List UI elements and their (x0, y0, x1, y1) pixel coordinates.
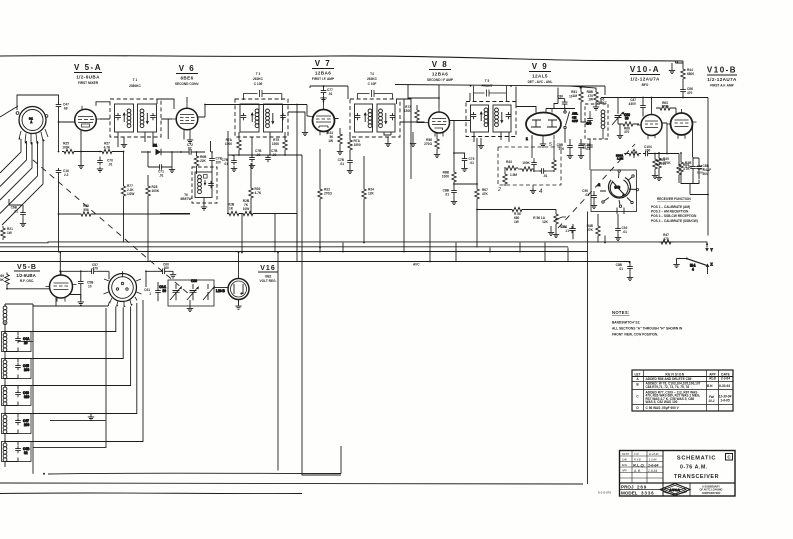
svg-text:1: 1 (526, 137, 528, 141)
node label V10-A (630, 65, 660, 87)
svg-text:AVC: AVC (413, 263, 420, 267)
capacitor C59b below T6 (579, 143, 593, 151)
wire: bus y=247 (0, 246, 568, 248)
ground below C68 (20, 221, 26, 227)
svg-text:SECOND I F AMP: SECOND I F AMP (427, 78, 454, 82)
svg-text:.01: .01 (340, 162, 345, 166)
svg-text:100: 100 (24, 368, 30, 372)
resistor R38 (679, 152, 693, 182)
wire: af coupling line (650, 125, 679, 163)
svg-text:1-6-65: 1-6-65 (720, 399, 729, 403)
capacitor C89 (693, 158, 712, 179)
resistor R35 (657, 152, 672, 175)
svg-text:4: 4 (692, 268, 694, 272)
ground T4 right (410, 132, 416, 147)
svg-text:BFO: BFO (642, 83, 649, 87)
svg-text:262KC: 262KC (367, 77, 378, 81)
wire: V7 top rail tap (310, 85, 348, 104)
svg-text:1.5M: 1.5M (510, 173, 517, 177)
wire: V10 interconnect (643, 115, 667, 126)
node label V10-B (707, 66, 737, 88)
wire: V5-B cathode to ground (69, 295, 81, 300)
svg-text:470: 470 (687, 91, 693, 95)
svg-text:.01: .01 (585, 193, 590, 197)
capacitor C47 (56, 102, 69, 111)
svg-text:C63: C63 (191, 279, 197, 283)
svg-text:1500: 1500 (225, 142, 232, 146)
tube V16 regulator (228, 274, 249, 303)
wire: T5 bottom leads (474, 132, 509, 143)
resistor R44 (681, 63, 695, 87)
wire: top rail hook and ground (672, 61, 683, 68)
node label NOTES (612, 310, 683, 337)
coil L6 + capacitor C44 (2, 330, 34, 360)
svg-text:V 9: V 9 (532, 62, 549, 71)
svg-text:V 6: V 6 (179, 64, 196, 73)
svg-text:2: 2 (497, 187, 501, 193)
transformer T2 osc coil (192, 167, 217, 210)
svg-text:APP: APP (622, 470, 627, 473)
svg-text:6BE6: 6BE6 (180, 76, 193, 81)
svg-text:100K: 100K (522, 161, 530, 165)
wire: T5 to V9 (470, 85, 536, 113)
ground C105 (578, 153, 584, 159)
svg-text:11-18-63: 11-18-63 (649, 453, 659, 456)
wire: second rail drop x=408 (407, 84, 409, 99)
title block text (621, 453, 731, 496)
node label T2 (181, 193, 192, 201)
wire: V9 pin grounds (542, 140, 544, 142)
capacitor C73b (209, 151, 222, 167)
svg-text:820: 820 (24, 395, 30, 399)
svg-text:R.V.B: R.V.B (634, 457, 641, 461)
ground R33 (337, 149, 343, 155)
svg-text:D1: D1 (153, 144, 157, 148)
svg-text:FRONT VIEW, CCW POSITION.: FRONT VIEW, CCW POSITION. (612, 333, 658, 337)
resistor R42 in box (520, 161, 534, 171)
capacitor C57 (80, 263, 109, 274)
svg-text:1: 1 (565, 229, 567, 233)
dashed mechanical link S2 (558, 144, 635, 228)
ground C73 (231, 166, 237, 172)
svg-text:PROJ: PROJ (621, 484, 634, 489)
ground below C70 (97, 167, 103, 173)
wire: R68 line y=214 (58, 213, 190, 252)
svg-text:1W: 1W (328, 139, 333, 143)
tube V10-B (667, 109, 697, 139)
resistor R69 grid (0, 273, 9, 289)
wire: y=210 volume line (476, 209, 556, 248)
resistor R66 (618, 122, 639, 134)
svg-text:1: 1 (149, 292, 151, 296)
logo subsidiary text (700, 486, 723, 495)
node label V7 (312, 59, 335, 81)
trimmer box (168, 280, 228, 306)
svg-text:100: 100 (645, 148, 651, 152)
capacitor C82 in box (539, 168, 548, 178)
wire: box internals (505, 136, 554, 188)
svg-text:12AL5: 12AL5 (532, 74, 548, 79)
svg-text:.01: .01 (272, 153, 277, 157)
svg-text:V 5-A: V 5-A (74, 63, 102, 72)
ground top rail (669, 68, 675, 74)
node label V5-B (14, 264, 40, 283)
node label AVC (413, 263, 420, 267)
resistor R56 cathode (424, 133, 439, 152)
resistor R82 (587, 89, 599, 105)
resistor R73 grid (404, 105, 425, 123)
wire: box around bfo-af (590, 211, 592, 213)
svg-text:.01: .01 (619, 267, 624, 271)
capacitor C80b (443, 188, 457, 199)
node label V16 (258, 265, 278, 283)
wire: V6 plate to T3 (198, 104, 309, 155)
resistor R48 (587, 214, 601, 243)
tube V10-A (637, 111, 666, 140)
svg-text:1.2M: 1.2M (617, 157, 624, 161)
wire: antenna loop to C47 (17, 95, 59, 110)
wire: S1-A fan verticals and diagonals (0, 106, 43, 225)
svg-text:BANDSWITCH’ S1:: BANDSWITCH’ S1: (612, 321, 640, 325)
wire: S-2 surrounding box (591, 170, 637, 212)
node label drawing number (598, 491, 611, 495)
capacitor C104 (643, 145, 652, 156)
capacitor C78 (338, 156, 353, 168)
wire: T3 bottom node (228, 132, 302, 156)
svg-text:V 7: V 7 (315, 59, 332, 68)
resistor R75 (272, 132, 287, 155)
wire: top horizontal rail (0, 56, 683, 61)
node label V9 (528, 62, 553, 84)
wire: BFO top feeds (570, 86, 605, 95)
svg-text:1-6-64: 1-6-64 (648, 469, 657, 473)
svg-text:.01: .01 (543, 174, 548, 178)
svg-text:T4: T4 (370, 72, 374, 76)
svg-text:LET: LET (634, 372, 640, 376)
svg-text:6800: 6800 (687, 72, 694, 76)
tube V5-B (46, 271, 77, 302)
capacitor C60 (146, 263, 173, 275)
svg-text:430V: 430V (629, 102, 637, 106)
resistor R25 (62, 142, 76, 154)
switch M-1 (677, 258, 714, 275)
title block frame (620, 451, 736, 497)
ground C77 (320, 96, 326, 102)
coil L8 + capacitor C46 (2, 384, 32, 414)
svg-text:2-3-64: 2-3-64 (721, 377, 730, 381)
svg-text:R.L.Q.: R.L.Q. (633, 463, 645, 468)
svg-text:82: 82 (24, 451, 28, 455)
svg-text:556: 556 (83, 208, 89, 212)
svg-text:.01: .01 (256, 153, 261, 157)
svg-text:C.W.: C.W. (634, 453, 640, 456)
wire: step vertical x=106 (33, 308, 106, 475)
coil L7 + capacitor C45 (2, 357, 32, 387)
wire: vertical x=278 (277, 252, 279, 471)
svg-text:82: 82 (188, 147, 192, 151)
svg-text:100K: 100K (62, 146, 70, 150)
svg-text:1500: 1500 (272, 142, 279, 146)
volume pot R56A (533, 210, 566, 233)
node label T3 (253, 72, 264, 86)
transformer T5 (466, 86, 516, 137)
ground C92 (615, 235, 621, 241)
capacitor C90 (582, 189, 597, 203)
svg-text:R43: R43 (506, 160, 512, 164)
svg-text:T 5: T 5 (485, 79, 490, 83)
capacitor C46 avc end (616, 262, 633, 276)
ground C90 (591, 203, 597, 209)
revision table grid (632, 370, 733, 411)
wire: bus end arrow Y (705, 243, 713, 252)
svg-text:1W: 1W (7, 231, 12, 235)
svg-text:T 3: T 3 (256, 72, 261, 76)
svg-text:V10-A: V10-A (630, 65, 660, 74)
tube V8 (425, 108, 454, 137)
transformer T1 (110, 99, 161, 137)
transformer T4 (350, 90, 400, 137)
resistor R88 (442, 170, 456, 184)
tube V6 (172, 103, 202, 133)
transformer T3 (235, 90, 288, 137)
capacitor C105 (578, 139, 591, 153)
ground C46 (627, 275, 633, 281)
tube V7 (309, 105, 339, 136)
svg-text:ADDED R86 AND DELETE C89: ADDED R86 AND DELETE C89 (646, 377, 692, 381)
capacitor C94 (561, 224, 576, 239)
resistor R32 rail (318, 149, 333, 252)
ground C78 (347, 168, 353, 174)
wire: R88 to node (453, 183, 478, 188)
wire: R38 C89 bottom joins (681, 180, 709, 195)
trimmer C63 (187, 279, 199, 300)
node label V6 (175, 64, 200, 86)
svg-text:1500: 1500 (404, 109, 411, 113)
resistor R47 on bus (659, 233, 673, 244)
node label T6 BFO (597, 98, 608, 106)
svg-text:SECOND CONV.: SECOND CONV. (175, 82, 200, 86)
wire: T1 to V6 (157, 99, 174, 119)
ground detector box (530, 188, 543, 195)
svg-text:1/2-12AU7A: 1/2-12AU7A (707, 77, 737, 82)
wire: vertical x=228 (227, 152, 229, 214)
wire: x=692 plate rail (692, 122, 695, 157)
svg-text:0-76 A.M.: 0-76 A.M. (680, 465, 708, 471)
wire: bus y=252 (0, 251, 587, 253)
wire: V9 plate riser (554, 87, 581, 109)
transformer T6 BFO coil (585, 98, 608, 171)
svg-text:.01: .01 (445, 193, 450, 197)
svg-text:S-B: S-B (615, 186, 621, 190)
svg-text:1W: 1W (514, 220, 519, 224)
resistor R68 (79, 204, 93, 216)
wire: V8 plate to T5 (454, 93, 471, 121)
capacitor C70 (97, 151, 113, 167)
svg-text:.01: .01 (108, 163, 113, 167)
capacitor C77 (321, 86, 333, 96)
svg-text:RLB: RLB (709, 377, 716, 381)
svg-text:100: 100 (559, 147, 565, 151)
wire: rail drops (99, 213, 606, 262)
svg-text:10K: 10K (0, 278, 5, 282)
svg-text:270K: 270K (663, 161, 671, 165)
svg-text:FIRST A.F. AMP: FIRST A.F. AMP (710, 84, 734, 88)
svg-text:1-2-64: 1-2-64 (649, 457, 657, 461)
svg-text:V5-B: V5-B (17, 264, 37, 271)
wire: second rail V8-V9 (395, 85, 596, 91)
resistor R81 (571, 87, 586, 122)
resistor R31 (241, 199, 255, 216)
svg-text:C 56 WAS .05μF 600 V: C 56 WAS .05μF 600 V (646, 406, 680, 410)
svg-text:V16: V16 (260, 265, 275, 272)
svg-text:12K: 12K (542, 220, 549, 224)
svg-text:RECEIVER FUNCTION: RECEIVER FUNCTION (657, 197, 691, 201)
ground trimmer box (187, 300, 193, 312)
wire: C47 to V5-A grid (58, 109, 75, 152)
svg-text:.01: .01 (328, 92, 333, 96)
ground V6 cathode (187, 138, 193, 144)
switch S-2 rotary (597, 170, 639, 208)
svg-text:3336: 3336 (641, 491, 654, 496)
ground C75 (249, 163, 255, 169)
wire: R25 to cathode node (76, 131, 100, 163)
resistor R29 (227, 203, 241, 216)
dashed mechanical link S1 (33, 160, 190, 295)
capacitor C58 (78, 271, 94, 299)
resistor R34 rail (362, 156, 375, 243)
svg-text:CHK: CHK (622, 458, 627, 461)
ground C80b (451, 199, 457, 205)
capacitor C71 (148, 152, 172, 178)
svg-text:SCHEMATIC: SCHEMATIC (677, 456, 716, 462)
wire: bottom bus y=473 (48, 472, 341, 475)
node label T1 (129, 78, 141, 88)
node label T4 (367, 72, 378, 86)
wire: R27 to R77 node (114, 151, 124, 184)
svg-text:V10-B: V10-B (707, 66, 737, 75)
resistor R43 in box (504, 160, 518, 170)
svg-text:10W: 10W (243, 207, 250, 211)
svg-text:30: 30 (162, 289, 166, 293)
node label T5 (482, 79, 493, 88)
svg-text:.01: .01 (623, 230, 628, 234)
svg-text:.01: .01 (470, 161, 475, 165)
trimmer C62 (159, 284, 182, 300)
capacitor C68 (9, 199, 26, 221)
wire: V8 top (408, 85, 440, 109)
ground R82 (593, 105, 599, 111)
svg-text:FIRST MIXER: FIRST MIXER (78, 81, 99, 85)
svg-text:V 8: V 8 (432, 60, 449, 69)
pot R36A (616, 148, 641, 160)
wire: vertical x=302 down to bus (302, 155, 341, 475)
capacitor C73 (222, 155, 237, 166)
coil L9 + capacitor C47b (2, 412, 32, 442)
switch ANL (564, 111, 578, 143)
wire: V5-B plate feed from bus (59, 252, 89, 275)
svg-text:WAS 5, C92 WAS 100: WAS 5, C92 WAS 100 (646, 400, 678, 404)
svg-text:6-1-0-079: 6-1-0-079 (598, 491, 611, 495)
coil L10 + capacitor C48 (2, 440, 32, 467)
svg-text:22K: 22K (200, 159, 207, 163)
resistor R77 (121, 184, 134, 243)
svg-text:1500: 1500 (354, 143, 361, 147)
svg-text:100: 100 (24, 423, 30, 427)
svg-text:C80: C80 (557, 95, 563, 99)
ground R64 (652, 173, 658, 179)
svg-text:12K: 12K (368, 192, 375, 196)
svg-text:1: 1 (567, 229, 569, 233)
tube V5-A (75, 106, 101, 135)
wire: y=97.5 BFO line (601, 97, 708, 236)
svg-text:C88 R79,71, 72, 73, 74, 75, 7: C88 R79,71, 72, 73, 74, 75, 76 (646, 385, 690, 389)
svg-text:470: 470 (663, 237, 669, 241)
detector dashed box (498, 147, 561, 185)
svg-text:VOLT REG.: VOLT REG. (260, 279, 277, 283)
svg-text:10: 10 (88, 285, 92, 289)
capacitor C87 (629, 98, 646, 115)
svg-text:262KC: 262KC (597, 101, 608, 105)
wire: right big box vertical x=587 (587, 212, 589, 485)
wire: V6 cathode legs (168, 97, 190, 140)
resistor R30 (249, 163, 262, 214)
svg-text:1K: 1K (229, 207, 234, 211)
svg-text:B.H.: B.H. (707, 384, 713, 388)
svg-text:470: 470 (586, 122, 592, 126)
svg-text:100K: 100K (152, 189, 160, 193)
ground R56 (434, 152, 440, 158)
capacitor C75 (249, 149, 262, 162)
svg-text:12BA6: 12BA6 (315, 71, 331, 76)
wire: AVC bus y=261 (0, 261, 628, 263)
wire: bus y=242 (0, 242, 707, 245)
switch S1-H rotary (104, 274, 142, 308)
switch S1-A rotary (16, 107, 48, 145)
ground C103 (567, 153, 573, 159)
svg-text:270Ω: 270Ω (424, 142, 432, 146)
node label RECEIVER FUNCTION (651, 197, 698, 223)
wire: vertical x=63 V5-B cathode down (55, 298, 57, 307)
wire: S1-H hub feed (109, 270, 147, 287)
resistor R41 in box (552, 154, 556, 176)
wire: switch runs to coil taps (18, 300, 143, 442)
wire: T4 to V8 (397, 99, 425, 179)
resistor R65 (677, 163, 691, 183)
wire: vertical x=404 (403, 99, 405, 243)
revision table text (634, 372, 731, 410)
svg-text:R.F. OSC.: R.F. OSC. (20, 279, 34, 283)
resistor R28 (146, 175, 160, 262)
capacitor C16 (56, 168, 69, 214)
ground V16 (235, 304, 241, 310)
capacitor C91 (560, 225, 575, 233)
resistor R71 (225, 132, 241, 155)
svg-text:.01: .01 (159, 174, 164, 178)
resistor R21 (1, 226, 13, 240)
wire: coil bank bus (5, 304, 108, 474)
ground T5 (478, 143, 484, 149)
ground C58 (78, 300, 84, 306)
svg-text:6BE7W: 6BE7W (181, 197, 192, 201)
capacitor C61 (144, 282, 161, 301)
ground R56A (553, 232, 559, 238)
svg-text:ALL SECTIONS “A” THROUGH “H” S: ALL SECTIONS “A” THROUGH “H” SHOWN IN (612, 327, 683, 331)
svg-text:MODEL: MODEL (621, 491, 638, 496)
ground C79 (461, 166, 467, 172)
svg-text:POS 3 – SSB-CW RECEPTION: POS 3 – SSB-CW RECEPTION (651, 214, 697, 218)
wire: V16 connections (238, 252, 240, 304)
resistor R64 (653, 154, 667, 174)
